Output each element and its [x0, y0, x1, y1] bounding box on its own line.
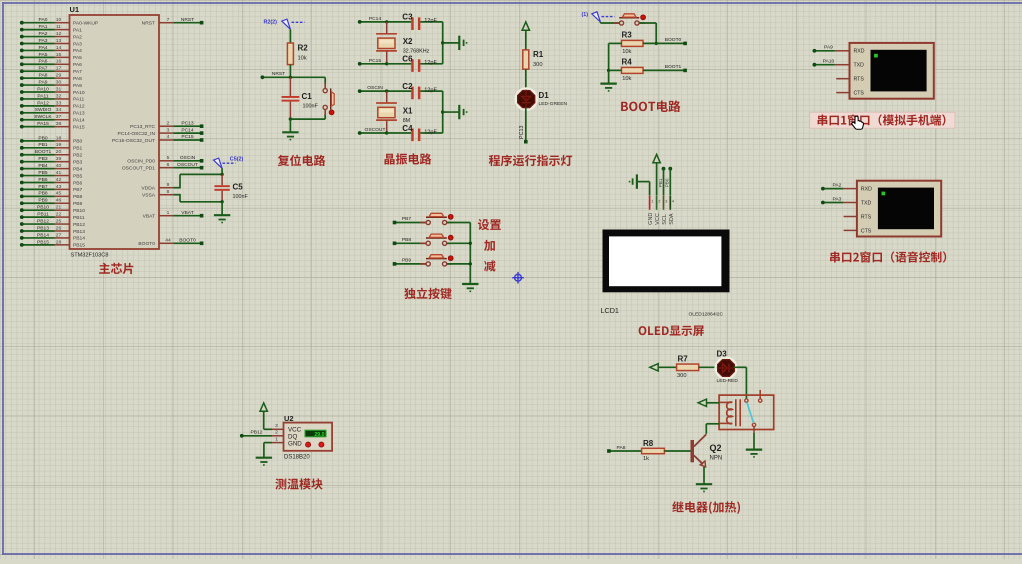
crystal X1 8M [376, 91, 413, 133]
terminal pin CTS stub [844, 229, 857, 231]
svg-text:12pF: 12pF [424, 60, 437, 66]
ground below C5 [214, 215, 230, 222]
U1 right pin PC14-OSC32_IN (pin 3) wire, terminal and net label PC14 [117, 127, 203, 137]
virtual terminal body [850, 43, 934, 99]
U1 pin VSSA (8) wire to C5 bottom node [142, 189, 222, 202]
svg-text:12pF: 12pF [424, 87, 437, 93]
svg-text:GND: GND [288, 440, 302, 447]
independent keys chinese caption [404, 288, 451, 300]
svg-text:100nF: 100nF [303, 104, 319, 110]
serial 1 caption highlight [810, 112, 955, 128]
svg-text:20: 20 [56, 149, 62, 155]
svg-text:DQ: DQ [288, 433, 297, 440]
svg-text:U2: U2 [284, 414, 294, 423]
terminal pin name RXD [854, 49, 865, 55]
svg-text:15: 15 [56, 52, 62, 58]
svg-text:8: 8 [167, 189, 170, 195]
ground below relay [746, 450, 762, 457]
svg-text:PB8: PB8 [402, 237, 412, 243]
svg-text:R4: R4 [622, 58, 633, 67]
svg-text:(1): (1) [582, 12, 589, 18]
U1 left pin PB6 (pin 42) wire, dot and net label [20, 177, 83, 186]
U1 left pin PB14 (pin 27) wire, dot and net label [20, 232, 85, 241]
wire R2 bottom to NRST node [289, 65, 291, 78]
svg-text:SWCLK: SWCLK [34, 114, 52, 120]
svg-text:PB12: PB12 [37, 218, 49, 224]
svg-text:RXD: RXD [861, 187, 872, 193]
svg-text:PB10: PB10 [73, 208, 85, 214]
svg-text:12: 12 [56, 31, 62, 37]
relay switch contacts [745, 390, 762, 427]
push button for PB8 with red indicator [420, 234, 453, 245]
ground below Q2 [696, 484, 712, 491]
resistor R1 300 [523, 50, 544, 69]
svg-text:11: 11 [56, 24, 61, 30]
terminal pin name RXD [861, 187, 872, 193]
svg-text:38: 38 [56, 121, 62, 127]
svg-text:R2: R2 [298, 44, 309, 53]
U1 left pin PB15 (pin 28) wire, dot and net label [20, 239, 85, 248]
U1 left pin PB7 (pin 43) wire, dot and net label [20, 184, 83, 193]
LED D3 LED-RED [716, 350, 739, 384]
svg-text:29.0: 29.0 [314, 432, 324, 438]
svg-text:CTS: CTS [861, 228, 872, 234]
svg-text:PB0: PB0 [38, 135, 48, 141]
push button for PB9 with red indicator [420, 255, 453, 266]
svg-text:RTS: RTS [854, 77, 865, 83]
svg-text:39: 39 [56, 156, 62, 162]
LCD1 pins 1-4 stubs [650, 196, 671, 210]
wire button PB8 to common rail [447, 242, 470, 244]
wire R8 to Q2 base [664, 450, 690, 452]
svg-text:PB14: PB14 [73, 236, 85, 242]
svg-text:PB8: PB8 [73, 194, 83, 200]
svg-text:37: 37 [56, 114, 62, 120]
relay RL1 body [719, 395, 774, 429]
power symbol above OLED VCC [653, 154, 660, 196]
svg-text:PC15: PC15 [181, 134, 194, 140]
svg-text:43: 43 [56, 184, 62, 190]
transistor Q2 NPN [691, 434, 723, 467]
U1 left pin PB3 (pin 39) wire, dot and net label [20, 156, 83, 165]
U1 left pin PB0 (pin 18) wire, dot and net label [20, 135, 83, 144]
svg-text:2: 2 [275, 430, 278, 436]
U2 temperature readout 29.0 [305, 430, 326, 438]
chip U1 part name STM32F103C8 [71, 253, 109, 259]
svg-text:VDDA: VDDA [141, 186, 155, 192]
svg-text:5: 5 [167, 155, 170, 161]
chip U1 chinese caption [99, 263, 133, 274]
svg-text:1: 1 [275, 437, 278, 443]
OLED SCL terminal dot and wire (net PB1) [662, 167, 666, 196]
svg-text:C6: C6 [402, 55, 413, 64]
svg-text:LED-GREEN: LED-GREEN [539, 101, 568, 107]
svg-text:31: 31 [56, 86, 62, 92]
svg-text:OLED12864I2C: OLED12864I2C [689, 312, 724, 318]
svg-text:C4: C4 [402, 124, 413, 133]
U1 right pin PC15-OSC32_OUT (pin 4) wire, terminal and net label PC15 [112, 134, 203, 144]
wire D3 to relay coil contact [734, 367, 747, 399]
svg-text:RTS: RTS [861, 214, 872, 220]
svg-text:D1: D1 [539, 91, 550, 100]
svg-text:30: 30 [56, 79, 62, 85]
svg-text:PA11: PA11 [73, 97, 85, 103]
power symbol above U2 VCC [260, 403, 267, 429]
svg-text:34: 34 [56, 107, 62, 113]
svg-text:U1: U1 [70, 5, 80, 14]
svg-text:PB4: PB4 [38, 163, 48, 169]
U1 left pin PA8 (pin 29) wire, dot and net label [20, 73, 82, 82]
key input net PB8 wire and dot [393, 237, 426, 245]
terminal pin TXD wire from net PA10 [813, 59, 850, 67]
U1 right pin OSCIN_PD0 (pin 5) wire, terminal and net label OSCIN [127, 155, 203, 165]
terminal pin name RTS [861, 214, 872, 220]
wire button PB7 to common rail [447, 222, 470, 224]
svg-text:R3: R3 [622, 31, 633, 40]
svg-text:PA6: PA6 [73, 62, 82, 68]
right rail wire joining caps [441, 91, 459, 133]
terminal pin name CTS [854, 91, 865, 97]
LCD1 rotated pin names GND VCC SCL SDA [648, 213, 675, 225]
virtual terminal body [857, 181, 941, 237]
svg-text:PB7: PB7 [73, 187, 83, 193]
wire probe to R2 top [289, 29, 291, 43]
svg-text:25: 25 [56, 218, 62, 224]
key function caption 设置 [478, 219, 501, 230]
wire button PB9 to common rail [447, 263, 470, 265]
LCD1 pin numbers 1 2 3 4 [651, 199, 675, 204]
svg-text:D3: D3 [717, 350, 728, 359]
resistor R2 10k [287, 43, 308, 65]
svg-text:PB3: PB3 [38, 156, 48, 162]
U1 left pin PA11 (pin 32) wire, dot and net label [20, 93, 85, 102]
svg-text:13: 13 [56, 38, 62, 44]
power symbol (left) for relay coil [698, 399, 719, 406]
svg-text:DS18B20: DS18B20 [284, 455, 310, 461]
svg-text:10: 10 [56, 17, 62, 23]
svg-text:PB15: PB15 [37, 239, 49, 245]
svg-text:PB11: PB11 [73, 215, 85, 221]
wire R1 to D1 [525, 69, 527, 90]
svg-text:VBAT: VBAT [143, 214, 155, 220]
svg-text:46: 46 [56, 198, 62, 204]
svg-text:PB8: PB8 [38, 191, 48, 197]
capacitor C4 12pF [387, 124, 443, 141]
junction OSCIN/crystal [385, 89, 388, 92]
svg-text:PC13: PC13 [519, 126, 525, 140]
svg-text:PA6: PA6 [39, 59, 48, 65]
ground below C1 [282, 119, 298, 140]
svg-text:PA2: PA2 [73, 34, 82, 40]
svg-text:PB1: PB1 [73, 146, 83, 152]
rotated net label PB0 [665, 178, 670, 187]
wire relay coil to Q2 collector [706, 424, 719, 434]
relay coil [719, 399, 740, 426]
svg-text:21: 21 [56, 205, 62, 211]
ground (sideways) for crystal caps [459, 105, 466, 119]
svg-text:R1: R1 [533, 50, 544, 59]
svg-text:BOOT1: BOOT1 [665, 64, 682, 70]
mouse hand cursor [852, 116, 864, 129]
svg-text:PB7: PB7 [38, 184, 48, 190]
terminal pin TXD wire from net PA3 [821, 196, 857, 204]
rotated net label PB1 [658, 178, 663, 187]
svg-text:41: 41 [56, 170, 62, 176]
svg-text:PB9: PB9 [402, 258, 412, 264]
OLED SDA terminal dot and wire (net PB0) [668, 167, 672, 196]
svg-text:PA0: PA0 [39, 17, 48, 23]
svg-text:PB1: PB1 [658, 178, 663, 187]
wire boot button to BOOT0 net [639, 23, 656, 43]
net PB12 wire to U2 DQ pin 2 [240, 430, 284, 438]
right rail wire joining caps [441, 22, 459, 64]
relay heater chinese caption [672, 501, 740, 514]
capacitor C6 12pF [387, 55, 443, 72]
svg-text:PA11: PA11 [37, 93, 49, 99]
junction on BOOT0 net [655, 42, 658, 45]
svg-text:PC14-OSC32_IN: PC14-OSC32_IN [117, 131, 155, 137]
svg-text:3: 3 [167, 127, 170, 133]
junction at C5 bottom [220, 200, 223, 215]
terminal pin RXD wire from net PA9 [813, 45, 850, 53]
U1 left pin PB9 (pin 46) wire, dot and net label [20, 198, 83, 207]
svg-text:12pF: 12pF [424, 129, 437, 135]
junction PC14/crystal [385, 20, 388, 23]
svg-text:VCC: VCC [655, 213, 661, 225]
svg-text:PB12: PB12 [73, 222, 85, 228]
svg-text:PC15-OSC32_OUT: PC15-OSC32_OUT [112, 138, 155, 144]
svg-text:PB6: PB6 [73, 180, 83, 186]
svg-text:18: 18 [56, 135, 62, 141]
U1 left pin PA1 (pin 11) wire, dot and net label [20, 24, 82, 33]
svg-text:3: 3 [275, 423, 278, 429]
wire R7 to D3 [699, 366, 718, 368]
svg-text:PA1: PA1 [39, 24, 48, 30]
wire Q2 emitter to ground [703, 467, 705, 484]
svg-text:PA14: PA14 [73, 118, 85, 124]
svg-text:PA4: PA4 [73, 48, 82, 54]
LCD1 part name OLED12864I2C [689, 312, 724, 318]
svg-text:PA2: PA2 [832, 182, 841, 188]
terminal pin name TXD [861, 200, 872, 206]
svg-text:44: 44 [165, 238, 171, 244]
U1 right pin BOOT0 (pin 44) wire, terminal and net label BOOT0 [138, 238, 203, 248]
reset circuit chinese caption [278, 155, 326, 166]
svg-text:C3: C3 [402, 13, 413, 22]
svg-text:17: 17 [56, 66, 62, 72]
chip U1 reference label [70, 5, 80, 14]
svg-text:PB14: PB14 [37, 232, 49, 238]
svg-text:10k: 10k [622, 76, 631, 82]
svg-text:PB11: PB11 [37, 212, 49, 218]
junction OSCOUT/crystal [385, 131, 388, 134]
net OSCOUT wire with dot [358, 127, 387, 135]
svg-text:PB15: PB15 [73, 243, 85, 249]
svg-text:SCL: SCL [662, 214, 668, 225]
ground below left rail [600, 70, 616, 91]
svg-text:C1: C1 [302, 92, 313, 101]
svg-text:PA12: PA12 [73, 104, 85, 110]
U1 left pin PA9 (pin 30) wire, dot and net label [20, 79, 82, 88]
svg-text:14: 14 [56, 45, 62, 51]
U1 left pin SWDIO (pin 34) wire, dot and net label [20, 107, 85, 116]
svg-text:PC13_RTC: PC13_RTC [130, 124, 155, 130]
capacitor C1 100nF [282, 77, 319, 119]
temperature sensor U2 DS18B20 body [284, 423, 333, 451]
svg-text:PA3: PA3 [73, 41, 82, 47]
svg-text:PA8: PA8 [617, 445, 626, 451]
U1 left pin PB10 (pin 21) wire, dot and net label [20, 205, 85, 214]
svg-text:LCD1: LCD1 [601, 306, 619, 315]
svg-text:NRST: NRST [181, 17, 194, 23]
svg-text:BOOT0: BOOT0 [665, 37, 682, 43]
svg-text:PC13: PC13 [181, 120, 194, 126]
svg-text:CTS: CTS [854, 91, 865, 97]
wire D1 to PC13 terminal [524, 108, 528, 144]
LCD1 OLED display module body [603, 230, 730, 293]
capacitor C2 12pF [387, 82, 443, 99]
svg-text:C2: C2 [402, 82, 413, 91]
U1 left pin PA15 (pin 38) wire, dot and net label [20, 121, 85, 130]
svg-text:OSCOUT_PD1: OSCOUT_PD1 [122, 166, 155, 172]
ground (sideways) for crystal caps [459, 36, 466, 50]
U1 left pin PA5 (pin 15) wire, dot and net label [20, 52, 82, 61]
svg-text:PA12: PA12 [37, 100, 49, 106]
svg-text:GND: GND [648, 213, 654, 225]
svg-text:32: 32 [56, 93, 62, 99]
U1 left pin PA4 (pin 14) wire, dot and net label [20, 45, 82, 54]
net NRST wire with label [261, 71, 326, 79]
resistor R7 300 [677, 355, 699, 379]
svg-text:SDA: SDA [669, 213, 675, 225]
capacitor C5 100nF [214, 174, 248, 201]
svg-text:PA3: PA3 [832, 196, 841, 202]
svg-text:PA0-WKUP: PA0-WKUP [73, 21, 98, 27]
svg-text:7: 7 [167, 17, 170, 23]
resistor R3 10k [622, 31, 644, 55]
terminal pin name CTS [861, 228, 872, 234]
svg-text:OSCIN_PD0: OSCIN_PD0 [127, 159, 155, 165]
chip U1 STM32F103C8 body [70, 15, 160, 249]
terminal pin RTS stub [836, 78, 849, 80]
svg-text:PC15: PC15 [369, 58, 382, 64]
junction at C1 bottom [289, 117, 326, 120]
U1 left pin PB1 (pin 19) wire, dot and net label [20, 142, 83, 151]
terminal pin CTS stub [836, 92, 849, 94]
run indicator chinese caption [489, 155, 572, 167]
U1 right pin PC13_RTC (pin 2) wire, terminal and net label PC13 [130, 120, 203, 130]
svg-text:R8: R8 [643, 439, 654, 448]
key function caption 加 [484, 240, 495, 251]
svg-text:R2(2): R2(2) [264, 20, 278, 26]
svg-text:12pF: 12pF [424, 18, 437, 24]
temperature module chinese caption [275, 478, 322, 489]
svg-text:PA4: PA4 [39, 45, 48, 51]
wire probe to boot button [600, 22, 619, 23]
svg-text:PB7: PB7 [402, 216, 412, 222]
serial 2 chinese caption [830, 251, 946, 262]
svg-text:16: 16 [56, 59, 62, 65]
terminal pin RTS stub [844, 216, 857, 218]
svg-text:PA9: PA9 [73, 83, 82, 89]
svg-text:40: 40 [56, 163, 62, 169]
svg-text:PB5: PB5 [38, 170, 48, 176]
junction R2/C1 on NRST net [289, 76, 292, 79]
svg-text:22: 22 [56, 212, 62, 218]
relay common to ground wire [753, 427, 755, 450]
push button for PB7 with red indicator [420, 213, 453, 224]
reset button symbol with red indicator [323, 83, 334, 116]
svg-text:1: 1 [167, 210, 170, 216]
svg-text:BOOT0: BOOT0 [179, 238, 196, 244]
svg-text:PA9: PA9 [824, 45, 833, 51]
svg-text:PA13: PA13 [73, 111, 85, 117]
svg-text:PB3: PB3 [73, 159, 83, 165]
junction PC15/crystal [385, 62, 388, 65]
svg-text:29: 29 [56, 73, 62, 79]
svg-text:PA10: PA10 [37, 86, 49, 92]
svg-text:PA8: PA8 [73, 76, 82, 82]
svg-text:33: 33 [56, 100, 62, 106]
terminal pin name TXD [854, 63, 865, 69]
capacitor C3 12pF [387, 13, 443, 30]
svg-text:PA10: PA10 [73, 90, 85, 96]
svg-text:PB9: PB9 [73, 201, 83, 207]
svg-text:R7: R7 [678, 355, 689, 364]
svg-text:2: 2 [167, 120, 170, 126]
U1 left pin PB13 (pin 26) wire, dot and net label [20, 225, 85, 234]
U1 right pin OSCOUT_PD1 (pin 6) wire, terminal and net label OSCOUT [122, 162, 204, 172]
net PC15 wire with dot [358, 58, 387, 66]
svg-text:PA15: PA15 [73, 124, 85, 130]
power symbol (left) for R7 [650, 364, 677, 371]
svg-text:VSSA: VSSA [142, 193, 156, 199]
svg-text:19: 19 [56, 142, 62, 148]
svg-text:PA5: PA5 [73, 55, 82, 61]
U2 GND pin 1 wire [264, 437, 284, 458]
svg-text:PB0: PB0 [73, 139, 83, 145]
svg-text:TXD: TXD [861, 200, 872, 206]
left rail wire R3 to R4 [609, 43, 622, 70]
net label PC13 (rotated) [519, 126, 525, 140]
U1 left pin PB12 (pin 25) wire, dot and net label [20, 218, 85, 227]
resistor R8 1k [642, 439, 665, 462]
svg-text:OSCIN: OSCIN [180, 155, 196, 161]
svg-text:Q2: Q2 [710, 443, 722, 453]
svg-text:C5: C5 [233, 183, 244, 192]
U2 reference label [284, 414, 294, 423]
net PA8 wire and dot [607, 445, 642, 453]
svg-text:SWDIO: SWDIO [35, 107, 52, 113]
svg-text:STM32F103C8: STM32F103C8 [71, 253, 109, 259]
svg-text:C5(2): C5(2) [230, 157, 244, 163]
U1 left pin PA2 (pin 12) wire, dot and net label [20, 31, 82, 40]
svg-text:1k: 1k [643, 456, 649, 462]
voltage probe R2(2) [264, 19, 305, 29]
svg-text:42: 42 [56, 177, 62, 183]
svg-text:NRST: NRST [142, 21, 155, 27]
svg-text:PA7: PA7 [39, 66, 48, 72]
svg-text:X1: X1 [403, 106, 413, 115]
svg-text:PB10: PB10 [37, 205, 49, 211]
svg-text:PB6: PB6 [38, 177, 48, 183]
svg-text:300: 300 [533, 62, 543, 68]
svg-text:OSCIN: OSCIN [367, 85, 383, 91]
U1 left pin PA6 (pin 16) wire, dot and net label [20, 59, 82, 68]
U1 right pin NRST (pin 7) wire, terminal and net label NRST [142, 17, 204, 27]
svg-text:PB4: PB4 [73, 166, 83, 172]
svg-text:PA9: PA9 [39, 79, 48, 85]
